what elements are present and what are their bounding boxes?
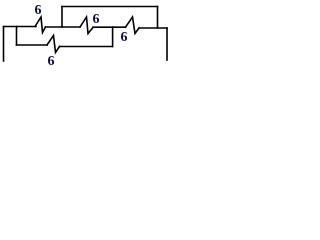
wire between R1 and R2 (46, 26, 81, 28)
svg-text:6: 6 (35, 3, 42, 18)
wire top-left horizontal segment (4, 26, 37, 28)
resistor R1 (35, 17, 46, 33)
resistor R4 (47, 36, 60, 53)
wire top loop right vertical (157, 7, 159, 29)
wire top loop left vertical (61, 7, 63, 28)
wire bottom branch left horizontal (17, 44, 48, 46)
resistor R2 (80, 17, 93, 34)
svg-text:6: 6 (121, 30, 128, 45)
resistor R3 (126, 17, 140, 34)
wire bottom branch left vertical (16, 27, 18, 46)
wire bottom branch right horizontal (60, 46, 113, 48)
wire outer left lead (3, 27, 5, 62)
svg-text:6: 6 (48, 54, 55, 69)
wire outer right lead (166, 28, 168, 60)
wire between R3 and right corner (139, 27, 167, 29)
svg-text:6: 6 (93, 12, 100, 27)
wire bottom branch right vertical (112, 27, 114, 47)
wire between R2 and R3 (93, 26, 126, 28)
wire top loop horizontal (62, 6, 158, 8)
